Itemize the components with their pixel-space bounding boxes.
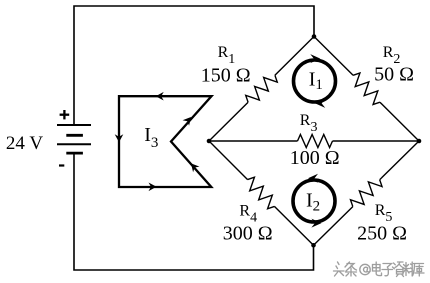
wire R1 branch stubs — [209, 37, 314, 142]
I3 arrow bottom edge (right) — [149, 183, 157, 192]
svg-text:300 Ω: 300 Ω — [223, 223, 273, 245]
battery minus label — [59, 164, 64, 166]
wire bottom loop from battery to bottom node — [74, 153, 314, 270]
battery 24V — [57, 125, 91, 153]
battery plus label — [60, 110, 70, 119]
resistor R2 — [348, 71, 384, 107]
node left — [207, 139, 212, 144]
mesh current loop I1 (clockwise circle) — [294, 54, 336, 108]
node bottom — [311, 243, 316, 248]
svg-text:250 Ω: 250 Ω — [357, 223, 407, 245]
I3 arrow upper diagonal (up-right) — [183, 117, 191, 126]
I3 arrow lower diagonal (up-left) — [191, 163, 200, 172]
I3 arrow left edge (down) — [115, 134, 124, 142]
wire R5 branch stubs — [314, 141, 420, 245]
svg-text:I1: I1 — [309, 68, 323, 93]
svg-text:R3: R3 — [300, 112, 318, 135]
resistor R5 — [348, 175, 384, 211]
resistor R4 — [243, 175, 279, 211]
svg-text:150 Ω: 150 Ω — [201, 65, 251, 87]
svg-text:I3: I3 — [144, 124, 158, 151]
node right — [417, 139, 422, 144]
resistor R3 — [298, 135, 333, 148]
watermark: toutiao @dianzi ziliaoku — [334, 262, 425, 277]
node top — [312, 34, 317, 39]
wire R4 branch stubs — [209, 141, 314, 245]
svg-text:100 Ω: 100 Ω — [290, 147, 340, 169]
wire R3 branch stubs — [209, 140, 419, 142]
svg-text:50 Ω: 50 Ω — [374, 64, 414, 86]
mesh current loop I3 (notched rectangle) — [119, 96, 212, 187]
wire top loop from battery to top node — [74, 6, 314, 125]
wire R2 branch stubs — [314, 37, 419, 142]
svg-text:24 V: 24 V — [6, 133, 43, 154]
I3 arrow top edge (left) — [156, 92, 164, 101]
resistor R1 — [243, 71, 279, 107]
svg-text:I2: I2 — [306, 189, 320, 214]
mesh current loop I2 (counterclockwise circle) — [293, 174, 335, 228]
